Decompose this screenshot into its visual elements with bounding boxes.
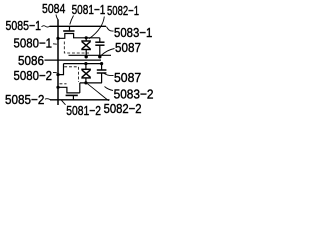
liquid crystal element LC1 plates — [81, 40, 91, 42]
node: LC1 top junction — [85, 36, 88, 39]
capacitor C2 (5087) top lead — [101, 64, 103, 70]
capacitor C1 (5087) top lead — [99, 38, 101, 42]
svg-text:5080−2: 5080−2 — [14, 68, 53, 83]
liquid crystal element LC1 bowtie — [82, 42, 91, 49]
liquid crystal element LC2 (5082-2) top lead — [85, 64, 87, 70]
leader for 5084 — [56, 15, 58, 21]
transistor 5081-2 drain riser — [79, 83, 81, 93]
wire: video signal line V1 (5084) vertical — [57, 20, 59, 106]
leader for 5081-1 — [70, 16, 74, 25]
leader for 5081-2 — [62, 100, 66, 105]
capacitor C1 bottom lead — [99, 45, 101, 57]
wire: H4 riser to V1 — [58, 64, 64, 75]
leader for 5082-1 — [89, 17, 105, 39]
liquid crystal element LC1 bottom lead — [85, 50, 87, 58]
transistor 5081-1 source wire — [58, 34, 100, 39]
node: riser junction on V1 — [56, 73, 59, 76]
liquid crystal element LC2 bottom lead — [85, 78, 87, 83]
svg-text:5082−1: 5082−1 — [107, 3, 139, 18]
svg-text:5081−2: 5081−2 — [66, 103, 101, 118]
wire H2: subpixel-1 bottom connection — [69, 54, 112, 56]
svg-text:5083−2: 5083−2 — [114, 86, 154, 101]
wire: scan line L1 (top, 5085-1) — [50, 25, 107, 27]
svg-text:5081−1: 5081−1 — [72, 2, 106, 17]
node: C1 bottom junction — [98, 55, 101, 58]
svg-text:5087: 5087 — [115, 40, 141, 55]
transistor 5081-1 gate stub — [69, 26, 71, 30]
capacitor C2 plates — [97, 69, 107, 71]
wire H5: subpixel-2 bottom connection — [80, 82, 102, 84]
wire H3: common line 5086 — [45, 59, 102, 61]
wire: scan line L5 (bottom, 5085-2) — [50, 99, 110, 101]
liquid crystal element LC2 plates — [81, 68, 91, 70]
leader for 5085-2 — [45, 99, 51, 100]
node: LC2 bottom junction — [84, 81, 87, 84]
wire H4: subpixel-2 top connection — [64, 63, 102, 65]
leader for 5080-2 — [53, 71, 57, 73]
svg-text:5085−2: 5085−2 — [5, 92, 44, 107]
node: C2 top junction — [100, 62, 103, 65]
svg-text:5086: 5086 — [18, 53, 44, 68]
leader for 5083-1 — [107, 27, 114, 31]
liquid crystal element LC2 bowtie — [82, 70, 91, 77]
svg-text:5087: 5087 — [114, 70, 141, 85]
svg-text:5085−1: 5085−1 — [6, 18, 42, 33]
capacitor C1 plates — [95, 41, 104, 43]
leader for 5082-2 — [88, 84, 109, 101]
leader for 5080-1 — [53, 43, 57, 45]
transistor 5081-2 channel — [58, 87, 80, 93]
node: LC1 bottom junction — [85, 55, 88, 58]
transistor 5081-1 gate bar — [63, 30, 74, 32]
transistor 5081-2 gate bar — [66, 94, 78, 96]
leader for 5087 bottom — [104, 73, 114, 75]
leader for 5085-1 — [42, 26, 50, 27]
svg-text:5082−2: 5082−2 — [104, 101, 142, 116]
node: source junction on V1 — [56, 37, 59, 40]
svg-text:5083−1: 5083−1 — [114, 25, 152, 40]
leader for 5087 top — [101, 49, 115, 56]
liquid crystal element LC1 (5082-1) top lead — [85, 38, 87, 41]
capacitor C2 bottom lead — [101, 73, 103, 83]
leader for 5083-2 — [105, 87, 114, 91]
svg-text:5080−1: 5080−1 — [14, 36, 53, 51]
subpixel box 5080-1 dashed outline — [64, 42, 89, 54]
svg-text:5084: 5084 — [42, 1, 65, 16]
node: TFT2 source junction on V1 — [56, 86, 59, 89]
node: LC2 top junction — [84, 62, 87, 65]
subpixel box 5080-2 dashed outline — [64, 67, 78, 82]
transistor 5081-2 gate stub — [72, 95, 74, 99]
